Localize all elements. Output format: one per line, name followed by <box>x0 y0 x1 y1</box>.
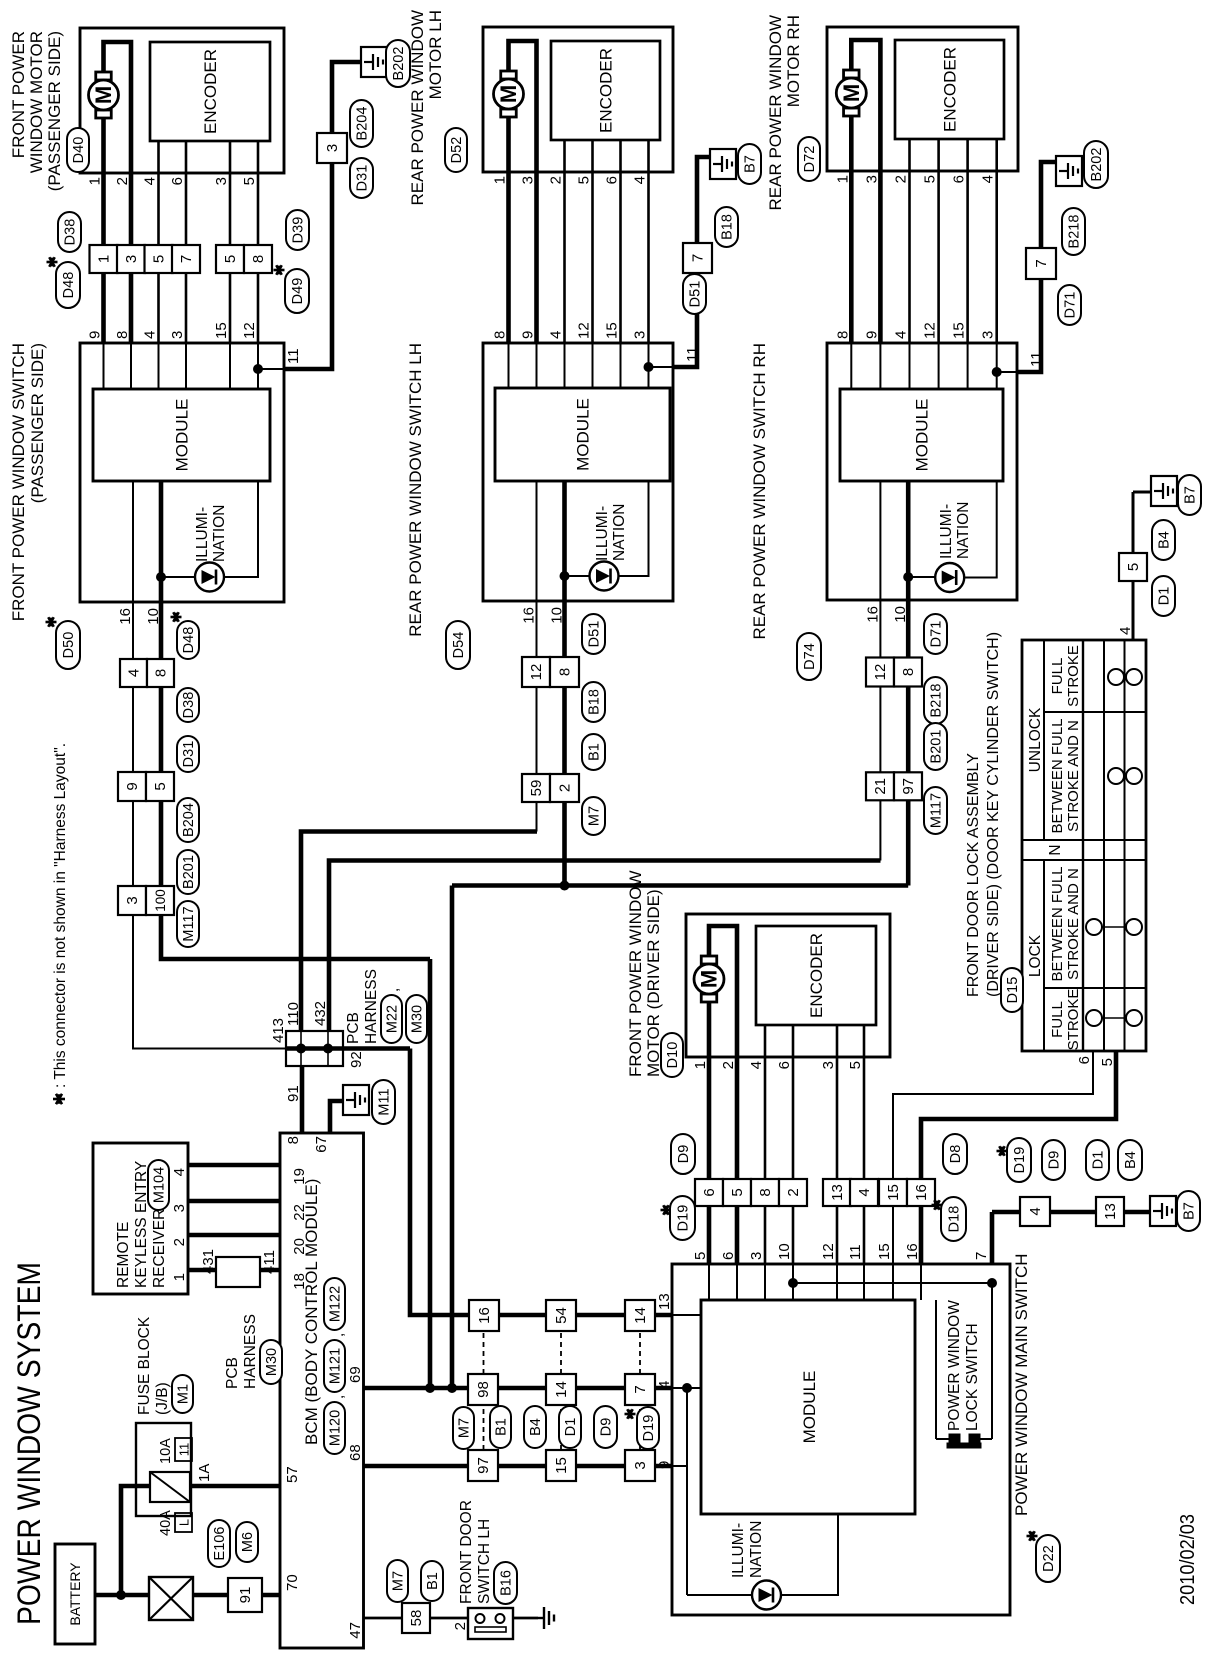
pin 2 rear power window motor LH D52 <box>548 176 565 184</box>
wire front power window motor (driver side) D10 encoder pin 4 <box>764 1025 767 1057</box>
svg-text:HARNESS: HARNESS <box>363 969 380 1044</box>
connector label D9 (row) <box>594 1406 617 1448</box>
connector label D71 (RH gnd) <box>1058 285 1081 325</box>
svg-text:91: 91 <box>285 1085 302 1102</box>
svg-text:M30: M30 <box>264 1348 280 1376</box>
svg-text:3: 3 <box>124 896 141 904</box>
svg-text:B16: B16 <box>499 1570 515 1596</box>
fuse block (J/B) box <box>136 1423 191 1516</box>
wire PCB 92 to main switch pin 13 <box>410 1049 673 1316</box>
wire D54 pin16 chain <box>536 601 538 832</box>
svg-text:13: 13 <box>829 1184 846 1201</box>
svg-text:97: 97 <box>475 1457 492 1474</box>
svg-text:BATTERY: BATTERY <box>67 1562 83 1626</box>
svg-text:FULL: FULL <box>1049 658 1066 695</box>
wire D54 pin 11 to ground B7 <box>673 157 710 367</box>
pin 5 door lock <box>1099 1058 1116 1066</box>
svg-text:B201: B201 <box>929 730 945 764</box>
svg-text:D10: D10 <box>665 1042 681 1069</box>
svg-text:M117: M117 <box>181 906 197 941</box>
wire main switch pin 11 / motor 5 <box>863 1057 865 1300</box>
pin 9 rear power window switch LH D54 <box>520 331 537 339</box>
svg-text:69: 69 <box>347 1366 364 1383</box>
front power window motor (driver side) D10 box <box>686 914 890 1057</box>
svg-text:97: 97 <box>900 778 917 795</box>
wire front power window motor (driver side) D10 encoder pin 3 <box>836 1025 839 1057</box>
svg-text:M: M <box>496 85 521 103</box>
connector 3 (row 68) <box>625 1450 655 1481</box>
svg-text:20: 20 <box>291 1238 308 1255</box>
connector label M7 (row) <box>453 1407 474 1449</box>
svg-text:M1: M1 <box>176 1384 192 1404</box>
wires D52 to D54 <box>509 172 649 343</box>
pin 8 front power window switch (passenger side) D50 <box>114 331 131 339</box>
svg-text:4: 4 <box>1027 1207 1044 1215</box>
connector label D22 <box>1027 1531 1061 1582</box>
svg-text:1: 1 <box>834 175 851 183</box>
svg-text:ENCODER: ENCODER <box>201 49 220 134</box>
connector 13 (D1/B4) <box>1096 1197 1124 1226</box>
svg-text:4: 4 <box>126 669 143 677</box>
svg-text:M11: M11 <box>377 1088 393 1115</box>
rear power window switch RH D74 box <box>827 343 1017 600</box>
svg-text:FRONT DOOR LOCK ASSEMBLY: FRONT DOOR LOCK ASSEMBLY <box>965 753 982 997</box>
wire rear power window motor RH D72 motor armature <box>851 40 880 171</box>
connector label D50 <box>46 617 81 669</box>
svg-text:M120: M120 <box>328 1410 344 1446</box>
junction illumination rear power window switch LH D54 <box>560 571 570 581</box>
rear power window switch LH D54 box <box>483 343 673 601</box>
connector D49/D39 pin 8 <box>244 245 272 273</box>
svg-text:2: 2 <box>452 1622 469 1630</box>
svg-text:6: 6 <box>604 176 621 184</box>
pin 5 rear power window motor LH D52 <box>576 176 593 184</box>
connector 3 (D31/B204) <box>317 133 347 163</box>
svg-text:54: 54 <box>553 1307 570 1324</box>
svg-text:4: 4 <box>748 1061 765 1069</box>
connector label D71 <box>924 614 947 654</box>
svg-text:70: 70 <box>284 1574 301 1591</box>
svg-text:12: 12 <box>872 664 889 681</box>
svg-text:8: 8 <box>757 1188 774 1196</box>
svg-text:67: 67 <box>313 1136 330 1153</box>
svg-text:UNLOCK: UNLOCK <box>1027 707 1044 772</box>
pin 4 front power window motor (driver side) D10 <box>748 1061 765 1069</box>
wire front power window switch (passenger side) D50 pin 4 <box>158 343 160 389</box>
svg-text:D39: D39 <box>291 217 307 244</box>
ground B7 (rear LH) <box>710 144 761 184</box>
wire main switch pin 4 into module <box>673 1387 701 1389</box>
svg-text:D48: D48 <box>61 272 77 299</box>
connector label D74 <box>797 633 821 680</box>
pin 10 rear power window switch RH D74 <box>892 606 909 623</box>
svg-text:92: 92 <box>348 1051 365 1068</box>
svg-text:47: 47 <box>347 1622 364 1639</box>
svg-text:(PASSENGER SIDE): (PASSENGER SIDE) <box>28 343 47 503</box>
svg-text:(DRIVER SIDE) (DOOR KEY CYLIND: (DRIVER SIDE) (DOOR KEY CYLINDER SWITCH) <box>985 632 1002 997</box>
pin 15 main switch <box>876 1243 893 1260</box>
svg-text:16: 16 <box>476 1307 493 1324</box>
connector label D72 <box>798 137 820 181</box>
wire main switch pin 16 chain <box>921 1051 1116 1300</box>
junction PCB bus row2 <box>323 1044 333 1054</box>
label front door lock assembly <box>965 632 1002 997</box>
label illumination main switch <box>730 1521 765 1578</box>
connector label B18 <box>582 682 605 722</box>
svg-text:M: M <box>697 970 722 988</box>
PCB harness internal row 328 <box>327 1031 329 1066</box>
svg-text:9: 9 <box>863 331 880 339</box>
connector label D54 <box>446 621 470 669</box>
pin 6 front power window motor (passenger side) D40 <box>169 177 186 185</box>
PCB harness M22/M30 label <box>345 969 427 1044</box>
wire rear power window switch RH D74 pin 4 <box>909 343 911 389</box>
svg-text:D9: D9 <box>599 1418 615 1437</box>
connector 16 (D18/D8 col) <box>907 1179 935 1206</box>
svg-text:FRONT DOOR: FRONT DOOR <box>458 1500 475 1604</box>
svg-text:16: 16 <box>521 607 538 624</box>
pin 2 front power window motor (passenger side) D40 <box>114 177 131 185</box>
svg-text:BETWEEN FULL: BETWEEN FULL <box>1049 718 1066 833</box>
svg-text:M30: M30 <box>410 1005 426 1033</box>
label power window lock switch <box>946 1300 981 1431</box>
wire PCB 110 to rear LH pin16 (bus A) <box>301 832 537 1032</box>
svg-text:58: 58 <box>408 1610 425 1627</box>
wire front power window switch (passenger side) D50 pin 16 <box>132 481 134 602</box>
svg-text:5: 5 <box>1099 1058 1116 1066</box>
wire rear power window switch LH D54 pin 10 <box>562 481 567 601</box>
wire front power window motor (passenger side) D40 encoder pin 6 <box>185 141 188 173</box>
svg-text:12: 12 <box>820 1243 837 1260</box>
pin 3 rear power window switch LH D54 <box>632 331 649 339</box>
fusible link 40A [L] <box>149 1510 193 1620</box>
wire rear power window switch RH D74 pin 15 <box>967 343 969 389</box>
svg-text:3: 3 <box>748 1252 765 1260</box>
svg-text:5: 5 <box>241 177 258 185</box>
label rear power window motor LH <box>408 10 445 206</box>
svg-text:B1: B1 <box>425 1572 441 1590</box>
wire main switch pin 5 / motor 1 <box>708 1057 710 1300</box>
module of front power window switch (passenger side) D50 <box>93 389 270 481</box>
svg-text:3: 3 <box>324 144 341 152</box>
svg-text:4: 4 <box>632 176 649 184</box>
connector 5 (D31/B204) <box>146 772 174 801</box>
wire bus D to passenger pin10 <box>428 959 433 1388</box>
connector 8 (D51/B18) <box>550 657 579 687</box>
svg-text:STROKE: STROKE <box>1065 989 1082 1051</box>
connector label M7 (47) <box>387 1560 408 1602</box>
title POWER WINDOW SYSTEM <box>11 1262 47 1625</box>
connector 12 (D51/B18) <box>522 657 550 687</box>
svg-text:4: 4 <box>980 175 997 183</box>
note: connector not shown in Harness Layout <box>52 743 69 1104</box>
fuse block label FUSE BLOCK (J/B) M1 <box>136 1316 193 1415</box>
pin 4 rear power window switch RH D74 <box>893 331 910 339</box>
svg-text:REAR POWER WINDOW SWITCH LH: REAR POWER WINDOW SWITCH LH <box>406 343 425 637</box>
connector 14 (M22 col) <box>625 1300 655 1331</box>
pin 6 rear power window motor LH D52 <box>604 176 621 184</box>
svg-text:3: 3 <box>863 175 880 183</box>
svg-text:2010/02/03: 2010/02/03 <box>1177 1514 1199 1605</box>
pin 2 rear power window motor RH D72 <box>893 175 910 183</box>
junction illumination main switch <box>682 1383 692 1393</box>
connector label D51 <box>582 614 605 654</box>
connector 15 (row 68) <box>546 1450 576 1481</box>
svg-text:3: 3 <box>520 176 537 184</box>
wire RKE pin 4 to BCM 19 <box>171 1165 308 1185</box>
connector label B218 (RH gnd) <box>1062 208 1085 255</box>
connector label B1 (47) <box>421 1561 443 1601</box>
wire bus C (window serial link) <box>452 883 908 888</box>
svg-text:3: 3 <box>171 1204 188 1212</box>
svg-text:RECEIVER: RECEIVER <box>151 1209 168 1288</box>
connector label D18 (col) <box>932 1197 967 1241</box>
pin 2 front power window motor (driver side) D10 <box>720 1061 737 1069</box>
connector label B4 (row) <box>524 1406 546 1448</box>
ground B7 (door lock) <box>1151 475 1201 515</box>
svg-text:D38: D38 <box>181 692 197 719</box>
connector D48/D38 pin 7 <box>172 245 200 273</box>
pin 1 front power window motor (driver side) D10 <box>692 1061 709 1069</box>
svg-text:16: 16 <box>904 1243 921 1260</box>
connector 7 (row 69) <box>625 1374 655 1405</box>
connector 7 (D51/B18) <box>683 243 712 273</box>
svg-text:5: 5 <box>1125 563 1142 571</box>
wire BCM 47 to door switch <box>347 1618 402 1639</box>
connector 15 (D18/D8 col) <box>879 1179 907 1206</box>
wire front power window switch (passenger side) D50 pin 10 <box>159 481 164 602</box>
svg-text:15: 15 <box>213 322 230 339</box>
table header lines <box>1022 640 1146 1051</box>
svg-text:1: 1 <box>692 1061 709 1069</box>
svg-text:13: 13 <box>1102 1203 1119 1220</box>
svg-text:ENCODER: ENCODER <box>807 933 826 1018</box>
svg-text:5: 5 <box>692 1252 709 1260</box>
wire main switch pin 12 / motor 3 <box>836 1057 838 1300</box>
svg-text:2: 2 <box>720 1061 737 1069</box>
wire fuse 10A to BCM pin 57 (1A) <box>190 1464 301 1486</box>
svg-text:6: 6 <box>701 1188 718 1196</box>
svg-text:B18: B18 <box>587 689 603 715</box>
connector label D52 <box>445 128 467 172</box>
BCM pin 8 wire to PCB harness <box>285 1066 302 1144</box>
connector 5 (D19/D9 col) <box>723 1179 751 1206</box>
connector D48/D38 pin 3 <box>117 245 145 273</box>
svg-text:,: , <box>330 1395 347 1399</box>
pin 3 rear power window switch RH D74 <box>980 331 997 339</box>
rear power window motor LH D52 box <box>483 27 673 172</box>
svg-text:18: 18 <box>291 1273 308 1290</box>
svg-text:D22: D22 <box>1041 1545 1057 1572</box>
svg-text:57: 57 <box>284 1466 301 1483</box>
svg-text:D8: D8 <box>948 1145 964 1164</box>
svg-text:D18: D18 <box>947 1206 963 1233</box>
connector label D9 (pin7) <box>1042 1140 1065 1180</box>
svg-text:M7: M7 <box>587 806 603 826</box>
svg-text:4: 4 <box>548 331 565 339</box>
pin 10 rear power window switch LH D54 <box>549 607 566 624</box>
svg-text:: This connector is not shown: : This connector is not shown in "Harnes… <box>52 743 69 1088</box>
connector 431/411 (PCB harness M30) <box>200 1249 278 1287</box>
svg-text:STROKE AND N: STROKE AND N <box>1065 720 1082 832</box>
wire door lock pin 4 to ground B7 <box>1117 492 1151 640</box>
wire rear power window switch LH D54 pin 16 <box>536 481 538 601</box>
svg-text:WINDOW MOTOR: WINDOW MOTOR <box>27 31 46 173</box>
connector label D15 <box>1001 968 1023 1012</box>
svg-text:22: 22 <box>291 1204 308 1221</box>
pin 1 rear power window motor RH D72 <box>834 175 851 183</box>
svg-text:B1: B1 <box>587 743 603 761</box>
svg-text:POWER WINDOW MAIN SWITCH: POWER WINDOW MAIN SWITCH <box>1012 1253 1031 1516</box>
wire rear power window switch LH D54 pin 12 <box>592 343 594 388</box>
svg-text:2: 2 <box>893 175 910 183</box>
connector label D8 (col) <box>943 1134 967 1174</box>
svg-text:5: 5 <box>576 176 593 184</box>
svg-text:B1: B1 <box>494 1418 510 1436</box>
pin 15 front power window switch (passenger side) D50 <box>213 322 230 339</box>
date 2010/02/03 <box>1177 1514 1199 1605</box>
svg-text:8: 8 <box>153 669 170 677</box>
svg-text:3: 3 <box>820 1061 837 1069</box>
svg-text:98: 98 <box>475 1381 492 1398</box>
wire front power window motor (passenger side) D40 encoder pin 4 <box>157 141 160 173</box>
svg-text:FRONT POWER WINDOW: FRONT POWER WINDOW <box>626 871 645 1078</box>
svg-text:2: 2 <box>548 176 565 184</box>
svg-text:4: 4 <box>171 1168 188 1176</box>
pin 4 front power window motor (passenger side) D40 <box>142 177 159 185</box>
junction bus C rear LH pin10 <box>560 881 570 891</box>
table text between unlock <box>1049 718 1082 833</box>
label rear power window motor RH <box>766 15 803 211</box>
pin 3 front power window switch (passenger side) D50 <box>169 331 186 339</box>
svg-text:2: 2 <box>557 784 574 792</box>
svg-text:2: 2 <box>114 177 131 185</box>
svg-text:5: 5 <box>729 1188 746 1196</box>
wire front power window switch (passenger side) D50 pin 3 <box>185 343 187 389</box>
illumination LED rear power window switch RH D74 <box>908 481 997 592</box>
pin 16 rear power window switch RH D74 <box>864 606 881 623</box>
pin 10 front power window switch (passenger side) D50 <box>145 608 162 625</box>
svg-text:10A: 10A <box>158 1438 174 1464</box>
svg-text:D31: D31 <box>355 165 371 192</box>
label illumination rear power window switch LH D54 <box>594 504 628 561</box>
wire rear power window switch RH D74 pin 3 <box>996 343 998 389</box>
connector 6 (D19/D9 col) <box>695 1179 723 1206</box>
svg-text:15: 15 <box>876 1243 893 1260</box>
contact unlock between <box>1108 768 1142 784</box>
connector 4 (D48/D38) <box>120 659 147 687</box>
BCM (body control module) box <box>280 1133 364 1648</box>
svg-text:16: 16 <box>864 606 881 623</box>
svg-text:D50: D50 <box>61 632 77 659</box>
junction pin11 rear power window switch RH D74 <box>992 367 1002 377</box>
svg-text:M22: M22 <box>385 1005 401 1033</box>
pin 3 front power window motor (driver side) D10 <box>820 1061 837 1069</box>
svg-text:16: 16 <box>913 1184 930 1201</box>
svg-text:5: 5 <box>847 1061 864 1069</box>
wire rear power window switch RH D74 pin 12 <box>938 343 940 389</box>
front power window switch (passenger side) D50 box <box>80 343 284 602</box>
pin 15 rear power window switch LH D54 <box>604 322 621 339</box>
wire front power window motor (driver side) D10 encoder pin 5 <box>863 1025 866 1057</box>
pin 3 rear power window motor RH D72 <box>863 175 880 183</box>
svg-text:D9: D9 <box>676 1145 692 1164</box>
svg-text:D19: D19 <box>1012 1147 1028 1174</box>
wire rear power window motor RH D72 encoder pin 5 <box>937 139 940 171</box>
wire front power window motor (driver side) D10 encoder pin 6 <box>792 1025 795 1057</box>
wire pin 11 rear power window switch RH D74 <box>997 371 1017 373</box>
motor rear power window motor LH D52 <box>494 71 524 117</box>
wire main switch pin 15 chain <box>893 1051 1093 1300</box>
connector label D39 <box>286 210 309 250</box>
module of main switch <box>701 1300 915 1514</box>
svg-text:432: 432 <box>312 1001 329 1026</box>
svg-text:7: 7 <box>690 254 707 262</box>
svg-text:D51: D51 <box>688 281 704 308</box>
illumination circuit main switch <box>687 1388 838 1610</box>
wires D40 to D50 passenger <box>104 173 259 343</box>
pin 1 front power window motor (passenger side) D40 <box>87 177 104 185</box>
svg-text:REAR POWER WINDOW: REAR POWER WINDOW <box>766 15 785 211</box>
connector 59 (B1/M7) <box>522 774 550 802</box>
front door lock assembly table box <box>1022 640 1146 1051</box>
svg-text:8: 8 <box>492 331 509 339</box>
pin 8 rear power window switch LH D54 <box>492 331 509 339</box>
svg-text:3: 3 <box>632 1461 649 1469</box>
encoder rear power window motor RH D72 <box>895 40 1004 139</box>
contact lock between <box>1086 919 1142 935</box>
fuse 10A [11] <box>150 1438 192 1502</box>
connector label D1 (lock) <box>1152 576 1175 616</box>
junction illumination front power window switch (passenger side) D50 <box>156 572 166 582</box>
svg-text:,: , <box>385 988 402 992</box>
svg-text:D1: D1 <box>563 1418 579 1437</box>
connector label D49 <box>274 265 310 313</box>
connector label E106 <box>208 1520 230 1567</box>
wire front power window switch (passenger side) D50 pin 12 <box>257 343 259 389</box>
svg-text:L: L <box>177 1519 192 1526</box>
svg-text:2: 2 <box>171 1238 188 1246</box>
svg-text:11: 11 <box>177 1443 192 1457</box>
svg-text:LOCK SWITCH: LOCK SWITCH <box>964 1323 981 1431</box>
svg-text:M7: M7 <box>457 1418 473 1438</box>
power window lock switch <box>936 1283 992 1448</box>
svg-text:19: 19 <box>291 1168 308 1185</box>
connector 2 (B1/M7) <box>550 774 579 802</box>
wire BCM 69 row <box>347 1366 673 1388</box>
junction illumination rear power window switch RH D74 <box>903 572 913 582</box>
label power window main switch <box>1012 1253 1031 1516</box>
svg-text:6: 6 <box>720 1252 737 1260</box>
connector 97 (row 68) <box>468 1450 498 1481</box>
ground door switch LH <box>538 1607 554 1629</box>
svg-text:8: 8 <box>250 255 267 263</box>
svg-text:ILLUMI-: ILLUMI- <box>594 506 611 561</box>
front power window motor (passenger side) D40 box <box>80 28 284 173</box>
svg-text:8: 8 <box>900 668 917 676</box>
pin 5 front power window motor (driver side) D10 <box>847 1061 864 1069</box>
PCB harness bus <box>286 1046 410 1051</box>
svg-text:14: 14 <box>553 1381 570 1398</box>
svg-text:D72: D72 <box>802 146 818 173</box>
svg-text:NATION: NATION <box>955 502 972 559</box>
pin 4 main switch top <box>656 1381 673 1389</box>
svg-text:ILLUMI-: ILLUMI- <box>194 507 211 562</box>
connector label D31 (pass gnd) <box>350 158 373 198</box>
wire main switch pin 13 into module <box>673 1314 701 1316</box>
wire rear power window switch RH D74 pin 8 <box>850 343 852 389</box>
svg-text:FUSE BLOCK: FUSE BLOCK <box>136 1316 153 1415</box>
